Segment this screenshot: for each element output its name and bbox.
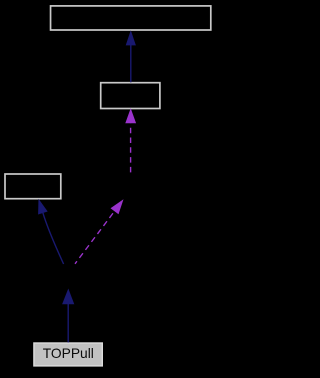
- svg-text:TOPPull: TOPPull: [43, 346, 94, 361]
- node A (top box): [51, 6, 211, 30]
- node L (left box): [5, 174, 61, 199]
- node B (middle box): [101, 83, 160, 109]
- wire: usage edge D to C (dashed purple, diagonal): [75, 211, 115, 264]
- wire: inheritance edge TOPPull to D (solid blue): [67, 304, 69, 343]
- node TOPPull: [34, 343, 102, 366]
- wire: inheritance edge B to A (solid blue): [130, 45, 132, 83]
- arrowhead D to C: [111, 199, 124, 214]
- arrowhead D to L: [38, 199, 48, 215]
- arrowhead B to A: [126, 30, 136, 45]
- wire: usage edge C to B (dashed purple, vertical): [130, 123, 132, 172]
- arrowhead TOPPull to D: [62, 289, 74, 305]
- arrowhead C to B: [125, 108, 136, 123]
- wire: inheritance edge D to L (solid blue, diagonal): [43, 213, 64, 264]
